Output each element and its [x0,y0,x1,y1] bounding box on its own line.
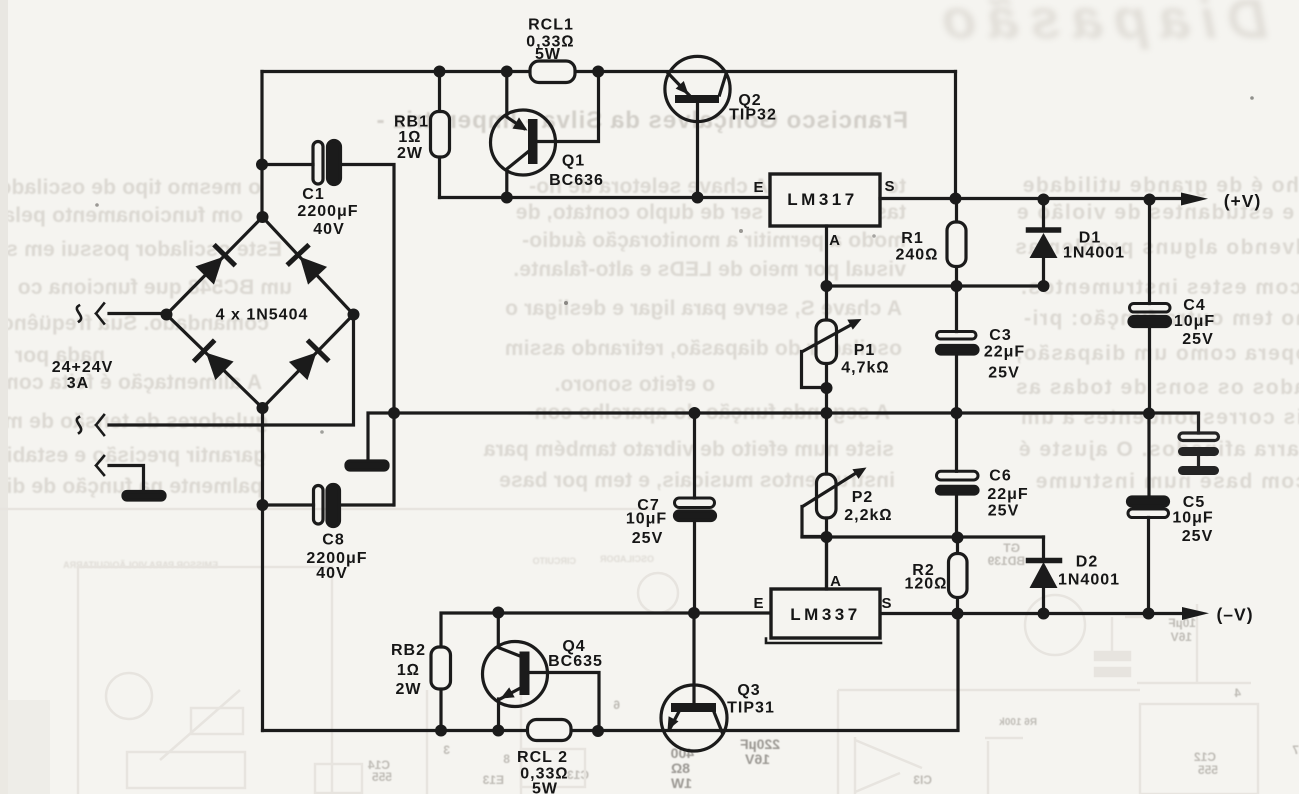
svg-text:3A: 3A [67,375,89,392]
node adj line P1 top [821,280,833,292]
svg-text:S: S [884,178,895,195]
node E2 Q3 collector / C7 [688,607,700,619]
svg-text:C3: C3 [989,327,1011,344]
svg-text:A: A [830,573,842,590]
svg-text:24+24V: 24+24V [52,359,114,376]
svg-text:120Ω: 120Ω [905,576,948,593]
node bridge + vertex [257,211,269,223]
op-amp U1 LM317 box [770,174,880,226]
capacitor C7 [675,498,715,508]
svg-text:P1: P1 [854,342,876,359]
diode bridge bottom-left [195,342,234,381]
node P2 wiper / LM337 adj [821,531,833,543]
wire LM317 output line [880,197,1181,200]
svg-text:1N4001: 1N4001 [1058,572,1120,589]
svg-text:22μF: 22μF [984,344,1025,361]
transistor Q1 [491,72,599,198]
op-amp U2 LM337 box [766,639,881,644]
svg-text:E: E [753,595,764,612]
node adj line D1 anode [1038,280,1050,292]
resistor R2 wires [956,538,959,614]
svg-text:10μF: 10μF [1172,510,1213,527]
resistor RB1 wires [438,72,441,198]
svg-text:RB2: RB2 [391,642,426,659]
svg-text:2W: 2W [396,681,422,698]
AC source symbol upper [96,304,104,324]
svg-text:LM337: LM337 [790,605,860,624]
resistor RCL1 [530,61,575,83]
capacitor C8 wires [263,503,394,506]
svg-text:1Ω: 1Ω [397,662,420,679]
svg-text:BC635: BC635 [548,653,603,670]
node S-line C4 [1144,194,1156,206]
svg-text:TIP32: TIP32 [729,107,777,124]
arrow -V [1182,607,1209,620]
svg-text:10μF: 10μF [626,511,667,528]
svg-text:40V: 40V [316,565,347,582]
node P1 wiper [821,382,833,394]
node E-line Q2 collector [692,192,704,204]
capacitor C5 wires [1147,414,1151,614]
svg-text:R1: R1 [901,230,923,247]
potentiometer P1 [802,286,862,413]
capacitor C3 [937,332,977,340]
wire top rail [262,70,956,73]
capacitor C4 [1130,304,1171,313]
diode bridge top-right [289,246,327,285]
resistor R1 wires [955,199,958,287]
wire adjust line upper [827,284,1044,287]
node S-line top corner [950,193,962,205]
svg-text:RCL 2: RCL 2 [517,749,568,766]
resistor RCL2 [528,720,572,741]
capacitor C6 wires [955,413,958,538]
wire bottom rail [263,614,959,731]
svg-text:2200μF: 2200μF [297,203,358,220]
arrow +V [1181,193,1208,206]
svg-text:4 x 1N5404: 4 x 1N5404 [216,307,309,324]
svg-text:Q3: Q3 [737,682,760,699]
svg-text:25V: 25V [1182,331,1213,348]
svg-text:C4: C4 [1183,297,1205,314]
wire regulator input line upper [440,196,771,199]
wire mid ground line [394,411,1199,414]
resistor R1 [947,222,966,267]
AC source symbol lower [96,415,104,435]
node adj2 R2 top [952,532,964,544]
capacitor C1 [313,142,323,185]
svg-text:40V: 40V [313,221,344,238]
node rail RCL2 right [592,725,604,737]
svg-text:TIP31: TIP31 [727,700,775,717]
ground center-tap [123,492,165,501]
node top rail / RB1 [434,66,446,78]
svg-text:C5: C5 [1183,494,1205,511]
node rail Q4 emitter [492,725,504,737]
capacitor C3 wires [955,286,958,413]
ground main [368,413,394,461]
node top rail / Q1 emitter [501,66,513,78]
capacitor C5 [1128,497,1169,506]
capacitor C6 [937,471,979,480]
node rail RB2 [435,725,447,737]
node bridge left vertex [161,309,173,321]
svg-text:22μF: 22μF [987,486,1028,503]
svg-text:E: E [753,179,764,196]
capacitor C1 wires [262,165,394,506]
svg-text:C8: C8 [322,532,344,549]
wire center-tap input [96,456,104,475]
node bridge right vertex [348,309,360,321]
capacitor C8 [314,486,324,525]
transistor Q4 [483,613,600,732]
svg-text:S: S [881,595,892,612]
node midline C7 [689,407,701,419]
resistor R2 [949,554,968,598]
node -V R2 bottom [952,608,964,620]
wire AC input upper [109,312,167,315]
wire left vertical from rail to bridge [260,72,263,218]
svg-text:10μF: 10μF [1174,313,1215,330]
wire right drop to LM317 output line [954,72,957,199]
svg-text:BC636: BC636 [549,172,604,189]
node top rail / RCL1 right [592,66,604,78]
capacitor C7 wires [693,413,696,613]
svg-text:5W: 5W [535,46,561,63]
wire LM317 adjust pin [825,226,828,286]
svg-text:25V: 25V [988,365,1019,382]
node E-line Q1 collector [501,192,513,204]
transistor Q3 [661,614,727,752]
svg-text:C1: C1 [302,186,324,203]
svg-text:1Ω: 1Ω [398,129,421,146]
svg-text:(–V): (–V) [1216,605,1253,625]
svg-text:(+V): (+V) [1224,191,1262,211]
svg-text:5W: 5W [532,781,558,794]
svg-text:25V: 25V [1182,528,1213,545]
node ground junction [388,407,400,419]
svg-text:25V: 25V [988,503,1019,520]
svg-text:4,7kΩ: 4,7kΩ [841,360,889,377]
svg-text:P2: P2 [852,489,874,506]
node bridge - vertex [257,402,269,414]
node E2 Q4 collector [492,607,504,619]
resistor RB1 [431,112,450,158]
svg-text:2,2kΩ: 2,2kΩ [844,507,892,524]
svg-text:240Ω: 240Ω [896,247,939,264]
node S-line D1 [1038,194,1050,206]
diode D1 [1042,200,1045,287]
wire adjust line lower [802,413,1044,589]
node C1 left [256,159,268,171]
svg-text:RB1: RB1 [394,114,429,131]
wire LM337 output line [880,612,1182,615]
node -V D2 anode [1038,608,1050,620]
node midline C4/C5 [1143,408,1155,420]
svg-text:2W: 2W [397,145,423,162]
wire AC input lower [109,315,354,426]
bleed capacitor stack right [1197,414,1200,466]
diode D2 [1042,537,1045,614]
bridge rectifier 4x1N5404 diamond [167,217,354,408]
svg-text:D2: D2 [1076,554,1098,571]
transistor Q2 [665,56,730,197]
svg-text:LM317: LM317 [787,190,857,209]
wire regulator input line lower [441,613,770,731]
svg-text:Q1: Q1 [562,153,585,170]
diode bridge bottom-right [289,342,328,381]
potentiometer P2 [802,468,867,537]
capacitor C4 wires [1148,200,1151,414]
diode bridge top-left [195,246,234,285]
resistor RB2 [431,647,451,689]
node adj line R1 bottom [951,280,963,292]
svg-text:C6: C6 [989,468,1011,485]
node -V C5 [1143,608,1155,620]
svg-text:RCL1: RCL1 [528,17,574,34]
node midline P1 [821,407,833,419]
ghost layer: mirrored bleed-through text from reverse page [0,0,1299,1]
wire LM337 adjust pin [825,537,828,589]
svg-text:1N4001: 1N4001 [1063,245,1125,262]
svg-text:A: A [829,232,841,249]
node midline C3/C6 [951,407,963,419]
node C8 left [257,499,269,511]
wire bridge bottom vertex down [261,408,264,731]
svg-text:25V: 25V [632,530,663,547]
